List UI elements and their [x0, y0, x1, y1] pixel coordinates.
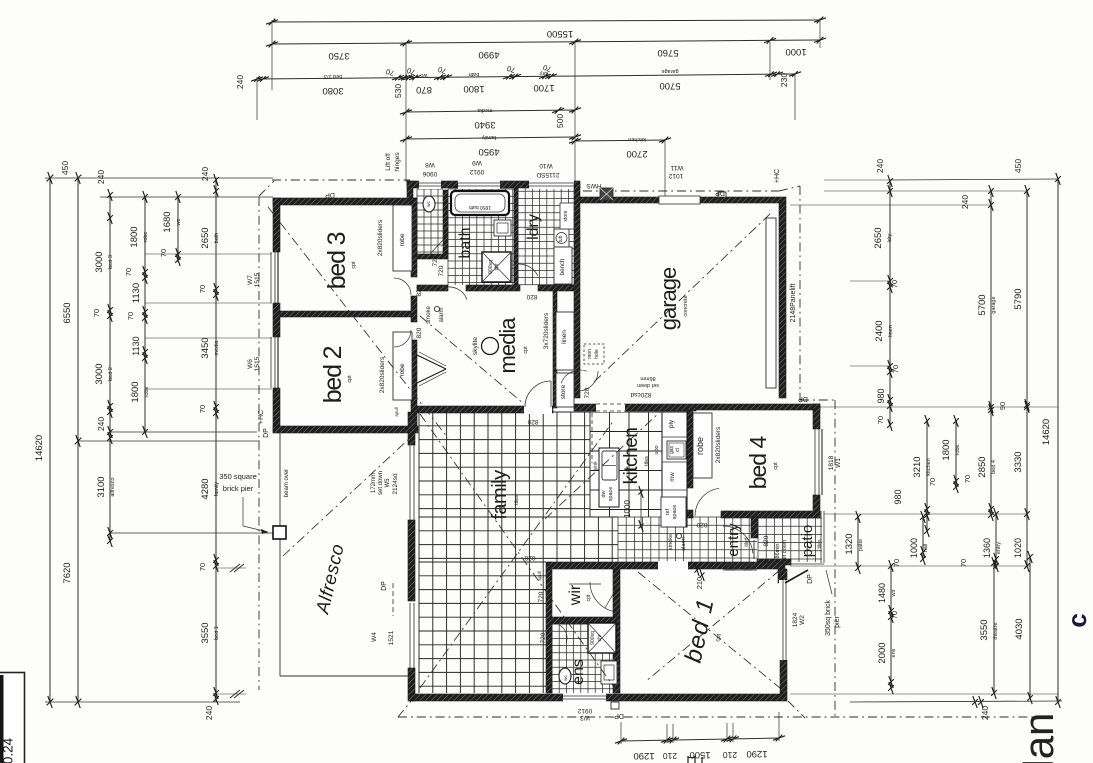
svg-text:wir: wir [891, 589, 897, 597]
svg-text:2000: 2000 [877, 642, 888, 663]
wall entry south [757, 559, 791, 565]
svg-text:bed 4: bed 4 [991, 460, 997, 474]
svg-text:wc: wc [563, 675, 568, 681]
svg-text:patio: patio [799, 525, 816, 558]
door arc store [578, 371, 598, 391]
diagonal line alfresco [283, 437, 411, 556]
ens wc pan [559, 668, 571, 684]
ens shower 900sq [588, 623, 616, 653]
svg-text:W7: W7 [247, 275, 254, 285]
svg-text:1020: 1020 [1013, 538, 1023, 558]
svg-text:media: media [214, 340, 220, 356]
svg-text:980: 980 [893, 489, 903, 504]
svg-text:1818: 1818 [828, 455, 835, 470]
svg-text:DP: DP [807, 574, 814, 584]
basin bath [494, 220, 511, 236]
right dim line 1320 patio [857, 517, 859, 568]
svg-text:90: 90 [998, 402, 1007, 410]
wall wc/bath divide [443, 190, 448, 254]
svg-text:wc: wc [420, 72, 428, 78]
ldry store strip [560, 203, 574, 229]
window W8 top [419, 180, 441, 189]
svg-text:2x820sliders: 2x820sliders [715, 426, 722, 463]
svg-text:Lift off: Lift off [385, 153, 392, 171]
wall bed4 right upper [813, 404, 820, 429]
porch steps [727, 563, 734, 570]
svg-text:1800: 1800 [130, 381, 141, 402]
svg-text:theatre: theatre [993, 622, 999, 639]
door swing dashed 820csd [591, 413, 593, 463]
svg-text:1515: 1515 [254, 356, 261, 371]
svg-text:robe: robe [144, 386, 150, 397]
svg-text:1650 bath: 1650 bath [469, 204, 491, 210]
svg-text:720: 720 [538, 591, 545, 602]
svg-text:tiled: tiled [744, 537, 750, 546]
svg-text:plan: plan [1015, 713, 1062, 763]
svg-text:3550: 3550 [200, 622, 211, 643]
svg-text:bed 4: bed 4 [745, 436, 771, 490]
svg-text:2650: 2650 [200, 227, 211, 248]
wall garage top [580, 197, 786, 203]
store cupboard media [556, 373, 574, 407]
svg-text:980: 980 [876, 388, 886, 403]
wall entry porch return [778, 565, 785, 583]
svg-text:W5: W5 [385, 478, 391, 488]
window W6 left [270, 337, 272, 388]
svg-text:2400: 2400 [874, 320, 885, 341]
svg-text:cpt: cpt [347, 375, 353, 383]
svg-text:kitchen: kitchen [621, 428, 642, 485]
window W2 bed1 [779, 580, 788, 660]
svg-text:tub: tub [558, 235, 564, 242]
svg-text:820: 820 [524, 554, 535, 561]
svg-text:5760: 5760 [657, 47, 678, 58]
svg-text:1480: 1480 [877, 583, 887, 603]
svg-text:ubo: ubo [654, 445, 660, 454]
right dim line 1360 entry / 70 [995, 514, 997, 566]
svg-text:3x720sliders: 3x720sliders [543, 312, 550, 349]
svg-text:ldry: ldry [525, 214, 542, 240]
svg-text:820: 820 [416, 327, 423, 338]
tiles entry hall [618, 517, 757, 562]
tiles ldry [518, 184, 574, 285]
svg-text:450: 450 [60, 161, 70, 175]
svg-text:500: 500 [555, 114, 565, 128]
diagonal line family 2 [420, 420, 614, 688]
svg-text:robe: robe [399, 363, 406, 376]
right dim line 3550 theatre [993, 563, 995, 693]
bottom dim chain 1290/210/1500/210/1290 [621, 738, 780, 741]
door arc entry front [723, 526, 753, 553]
svg-text:3000: 3000 [94, 251, 105, 272]
wall media east / linen front [553, 291, 557, 408]
window W5 family west [409, 445, 411, 520]
svg-text:cpt: cpt [523, 346, 529, 354]
break marks on left extension lines [230, 564, 240, 572]
svg-text:kitchen: kitchen [926, 458, 932, 475]
svg-text:70: 70 [890, 611, 899, 619]
svg-text:1000: 1000 [909, 538, 919, 558]
svg-text:tiles: tiles [817, 539, 823, 548]
svg-text:robe: robe [399, 233, 406, 246]
garage door 2148Panelift leaf [766, 218, 776, 388]
dimension chain row 2: 3750 / 4990 / 5760 / 1000 [272, 40, 820, 44]
left dim line 14620 overall [49, 178, 51, 702]
svg-text:W4: W4 [371, 632, 378, 642]
mon hole garage [584, 344, 604, 364]
svg-text:beam over: beam over [284, 469, 290, 497]
patio corner diagonal [785, 570, 808, 583]
svg-text:172mm: 172mm [371, 473, 377, 493]
svg-text:linen: linen [561, 330, 568, 344]
right dim line 4030 [1029, 557, 1031, 698]
eaves outline bottom [398, 716, 1050, 718]
window W3 bottom [563, 693, 606, 702]
svg-text:alarm: alarm [681, 537, 687, 551]
wall bed1 north [549, 562, 783, 569]
svg-text:bed 2/3: bed 2/3 [324, 73, 342, 79]
svg-text:1700: 1700 [533, 82, 554, 93]
svg-text:2x820sliders: 2x820sliders [379, 356, 386, 393]
dimension chain 2700 kitchen [575, 140, 665, 141]
dimension chain row 3: 240/3080/530/70/870/70/1800/70/1700/70/5700/230 [257, 74, 795, 79]
ldry tub [554, 229, 569, 247]
right dim line 2850 bed4 / 70 [990, 410, 992, 515]
patio south edge [790, 563, 824, 565]
wall kitchen north (garage south) [574, 404, 696, 411]
svg-text:W11: W11 [670, 164, 683, 171]
svg-text:7620: 7620 [62, 562, 73, 583]
wall bed wing left upper [273, 198, 280, 252]
diagonal line bed1 a [638, 572, 780, 688]
svg-text:ens: ens [570, 659, 587, 685]
svg-text:linen: linen [888, 325, 894, 337]
svg-text:70: 70 [198, 405, 207, 413]
svg-text:86mm: 86mm [640, 375, 656, 381]
svg-text:space: space [672, 505, 678, 520]
svg-text:720: 720 [432, 255, 439, 266]
gas ct box [667, 441, 686, 459]
right dim line 240/2650 ldry/70/2400 linen/70/980/70 [889, 181, 891, 425]
svg-text:space: space [608, 487, 614, 502]
svg-text:DP: DP [715, 189, 725, 196]
wall family west mid [408, 520, 415, 601]
svg-text:3080: 3080 [322, 85, 343, 96]
svg-text:70: 70 [928, 478, 937, 486]
svg-text:1800: 1800 [941, 439, 952, 460]
svg-text:W2: W2 [799, 615, 806, 625]
svg-text:skylite: skylite [472, 337, 479, 355]
window W7 left [270, 252, 272, 303]
door arc bath [443, 287, 467, 300]
svg-text:70: 70 [198, 285, 207, 293]
svg-text:820: 820 [527, 418, 538, 425]
right dim line 1020 [1026, 514, 1028, 566]
label 1000 island dim [640, 490, 642, 528]
tiles ens [552, 624, 613, 693]
wall bath block step left [407, 181, 413, 201]
svg-text:1515: 1515 [254, 272, 261, 287]
svg-text:4280: 4280 [200, 478, 211, 499]
svg-text:3210: 3210 [912, 456, 923, 477]
eaves outline garage top [583, 190, 779, 192]
wall bath south [417, 254, 448, 259]
svg-text:ldry: ldry [887, 233, 893, 242]
svg-text:3940: 3940 [474, 119, 495, 130]
svg-text:W6: W6 [247, 359, 254, 369]
svg-text:bench: bench [560, 259, 566, 275]
door arc ldry [512, 264, 538, 276]
window W9 top [458, 180, 500, 189]
svg-text:set down: set down [637, 382, 659, 388]
svg-text:15500: 15500 [547, 28, 573, 39]
svg-text:store: store [563, 210, 569, 221]
svg-text:1500: 1500 [689, 749, 710, 760]
robe bed2 [393, 332, 412, 400]
svg-text:ens: ens [891, 648, 897, 657]
svg-text:spull: spull [394, 407, 399, 416]
alfresco brick pier [273, 526, 286, 539]
svg-text:70: 70 [124, 268, 133, 276]
svg-text:bed 1: bed 1 [214, 626, 220, 640]
eaves outline bed4 right [800, 399, 835, 401]
svg-text:4030: 4030 [1014, 618, 1025, 639]
svg-text:70: 70 [198, 563, 207, 571]
svg-text:concrete: concrete [683, 295, 689, 316]
wall bed wing left mid [273, 303, 280, 337]
diagonal line garage [594, 212, 772, 382]
svg-text:ct: ct [675, 447, 681, 452]
kitchen bench right [662, 412, 687, 527]
wall kitchen/bed4 divide [687, 410, 693, 488]
alfresco west edge [279, 432, 281, 676]
svg-text:2650: 2650 [873, 227, 884, 248]
wall ldry/garage [574, 184, 580, 398]
eaves outline top-right chamfer [779, 186, 800, 191]
wall bath/ldry divide [514, 188, 518, 285]
svg-text:garage: garage [991, 296, 997, 313]
svg-text:70: 70 [159, 249, 168, 257]
svg-text:media: media [477, 107, 493, 113]
wall entry west / bed4 entry [721, 511, 728, 518]
svg-text:ldry: ldry [539, 70, 548, 76]
wall bed wing bottom (alfresco north) [273, 426, 418, 433]
svg-text:70: 70 [891, 365, 900, 373]
svg-text:bed 3: bed 3 [108, 255, 114, 269]
dimension chain 3940 media [406, 110, 575, 112]
left dim line 3000 bed3 / 70 / 3000 bed2 / 240 / 3100 alfresco [109, 195, 111, 541]
svg-text:robe: robe [695, 437, 705, 455]
right dim line 1000 hall / 70 [922, 517, 924, 559]
svg-text:14620: 14620 [1041, 419, 1052, 445]
svg-text:1521: 1521 [388, 630, 395, 645]
svg-text:230: 230 [779, 73, 789, 87]
door arc bed3 [394, 278, 411, 295]
tiles bath [448, 189, 514, 285]
svg-text:cpt: cpt [586, 594, 592, 601]
svg-text:5700: 5700 [977, 294, 988, 315]
svg-text:garage: garage [661, 68, 678, 74]
diagonal line bed1 b [645, 570, 780, 682]
wall ens/bed1 divide [613, 624, 620, 693]
ref space [661, 497, 686, 527]
svg-text:86min: 86min [775, 544, 781, 559]
svg-text:350sq brick: 350sq brick [825, 600, 832, 636]
svg-text:14620: 14620 [34, 435, 45, 461]
wall bed1 right [780, 569, 787, 694]
svg-text:robe: robe [955, 444, 961, 455]
alfresco south edge [280, 675, 411, 677]
svg-text:1680: 1680 [162, 211, 173, 232]
svg-text:6550: 6550 [62, 302, 73, 323]
svg-text:alfresco: alfresco [110, 477, 116, 496]
door arc wir [590, 582, 620, 612]
svg-text:+HC: +HC [774, 169, 781, 183]
ens basin [601, 661, 617, 684]
svg-text:family: family [214, 482, 220, 497]
partial text fragment bottom [687, 756, 689, 763]
svg-text:3100: 3100 [96, 476, 107, 497]
right bottom extension line [850, 701, 1062, 702]
left dim line robes 1800/1130/70/1130/1800 [144, 197, 146, 432]
svg-text:70: 70 [963, 475, 972, 483]
svg-text:1800: 1800 [129, 226, 140, 247]
svg-text:450: 450 [1013, 159, 1023, 173]
svg-text:ply: ply [668, 419, 675, 428]
right dim line 3330 [1026, 407, 1028, 514]
svg-text:70: 70 [890, 280, 899, 288]
svg-text:3550: 3550 [979, 619, 990, 640]
wall media south [417, 406, 553, 413]
wall hall side of bed wing mid [411, 296, 417, 322]
svg-text:2124sd: 2124sd [392, 473, 399, 495]
svg-text:DP: DP [798, 395, 808, 402]
svg-text:hinges: hinges [394, 152, 401, 172]
door arc media [525, 381, 551, 407]
svg-text:DP: DP [325, 191, 335, 198]
porch edge lines [723, 564, 757, 566]
tiles family mid [419, 517, 618, 562]
svg-text:820: 820 [526, 293, 537, 300]
svg-text:hole: hole [594, 349, 600, 359]
svg-text:2850: 2850 [977, 456, 988, 477]
eaves outline garage right [799, 186, 801, 400]
wall house bottom [410, 694, 787, 701]
opening 820csd in kitchen north wall [596, 403, 625, 412]
svg-text:3450: 3450 [200, 337, 211, 358]
svg-text:4950: 4950 [478, 146, 499, 157]
door arc garage store [561, 370, 587, 383]
svg-text:2148Panelift: 2148Panelift [790, 283, 797, 322]
wall hall side of bed wing lower [411, 340, 417, 426]
svg-text:1824: 1824 [792, 612, 799, 627]
svg-text:bath: bath [469, 71, 480, 77]
eaves outline bottom-right chamfer [788, 701, 805, 718]
svg-text:0906: 0906 [422, 170, 437, 177]
wall wir/bed1 divide [613, 569, 620, 617]
svg-text:1290: 1290 [633, 750, 654, 761]
shower bath 900sq [482, 252, 511, 282]
svg-text:1000: 1000 [623, 500, 632, 518]
svg-text:W9: W9 [472, 159, 482, 166]
kitchen island bench [599, 448, 619, 507]
right dim line 2000 ens [890, 618, 892, 688]
svg-text:5700: 5700 [659, 80, 680, 91]
window W11 garage top [659, 197, 700, 199]
svg-text:240: 240 [200, 167, 210, 181]
svg-text:2x820sliders: 2x820sliders [377, 219, 384, 256]
wall bed wing left lower [273, 388, 280, 432]
svg-text:W10: W10 [539, 162, 553, 169]
svg-text:240: 240 [96, 170, 106, 184]
svg-text:0912: 0912 [469, 168, 484, 175]
skylite media [482, 338, 499, 355]
DP square bottom [611, 702, 619, 709]
svg-text:DP: DP [263, 428, 270, 438]
svg-text:70: 70 [876, 416, 885, 424]
svg-text:+HC: +HC [258, 410, 265, 424]
right dim line 3210 kitchen / 980 [926, 421, 928, 531]
window W1 bed4 [814, 429, 816, 495]
svg-text:0912: 0912 [577, 707, 592, 714]
door arc bed2 [394, 330, 411, 347]
opening bed1 door [658, 561, 688, 570]
window W4 family west [409, 603, 411, 668]
svg-text:70: 70 [92, 309, 101, 317]
door arc wc [430, 240, 443, 254]
svg-text:1130: 1130 [131, 283, 142, 303]
svg-text:cpt: cpt [773, 462, 779, 470]
svg-text:bed 2: bed 2 [108, 367, 114, 381]
eave dash alfresco east [392, 583, 394, 616]
svg-text:820csd: 820csd [630, 391, 651, 398]
left dim line 6550 / 7620 [77, 178, 79, 702]
svg-text:dw: dw [601, 490, 607, 497]
right dim line 1480 wir / 70 [890, 566, 892, 618]
bath tub [451, 191, 509, 215]
left extension lines [45, 177, 273, 179]
svg-text:DP: DP [381, 581, 388, 591]
right dim line 1800 robe / 70 [955, 421, 957, 487]
wall bed wing top [273, 198, 417, 205]
svg-text:ref: ref [665, 508, 671, 515]
svg-text:store: store [560, 384, 567, 399]
wall bed4 bottom [726, 511, 820, 518]
svg-text:wir: wir [567, 584, 584, 606]
diagonal line family 1 [420, 414, 616, 690]
svg-text:hall: hall [923, 544, 929, 553]
wall bed4 right lower [813, 495, 820, 517]
wall hall side of bed wing upper [411, 198, 417, 277]
diagonal line media [420, 316, 524, 404]
opening media door [524, 405, 552, 414]
svg-text:media: media [495, 317, 520, 374]
title block corner bottom-left [0, 673, 25, 763]
left dim line 240/2650 bath/70/3450 media/70/4280 family/70/3550 bed1/240 [215, 180, 217, 702]
svg-text:530: 530 [393, 84, 403, 98]
eaves outline top bed wing [272, 179, 410, 181]
svg-text:wc: wc [176, 218, 182, 226]
patio east edge [820, 511, 822, 563]
dimension chain 4950 family [406, 137, 575, 139]
svg-text:70: 70 [126, 312, 135, 320]
svg-text:entry: entry [996, 542, 1002, 554]
wall bed3/bed2 dividing [280, 311, 412, 317]
svg-text:5790: 5790 [1013, 288, 1024, 309]
svg-text:720: 720 [438, 265, 445, 276]
svg-text:210: 210 [663, 751, 677, 761]
svg-text:brick pier: brick pier [223, 484, 254, 493]
